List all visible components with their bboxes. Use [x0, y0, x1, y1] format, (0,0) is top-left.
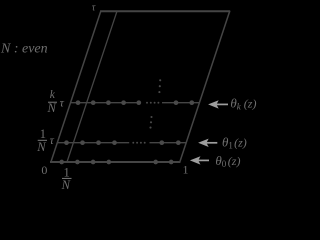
svg-text:N: N — [47, 101, 57, 115]
svg-text:1: 1 — [40, 127, 46, 141]
svg-text:θ1(z): θ1(z) — [222, 135, 247, 151]
svg-text:0: 0 — [41, 163, 47, 177]
svg-text:N: N — [36, 140, 46, 154]
svg-text:τ: τ — [92, 3, 96, 14]
svg-text:θk(z): θk(z) — [230, 96, 256, 112]
svg-text:τ: τ — [50, 133, 55, 147]
svg-text:k: k — [50, 89, 56, 101]
svg-text:θ0(z): θ0(z) — [215, 153, 240, 169]
svg-text:1: 1 — [183, 163, 189, 177]
svg-text:N : even: N : even — [0, 42, 48, 57]
svg-text:τ: τ — [60, 96, 65, 110]
svg-text:N: N — [61, 178, 71, 191]
